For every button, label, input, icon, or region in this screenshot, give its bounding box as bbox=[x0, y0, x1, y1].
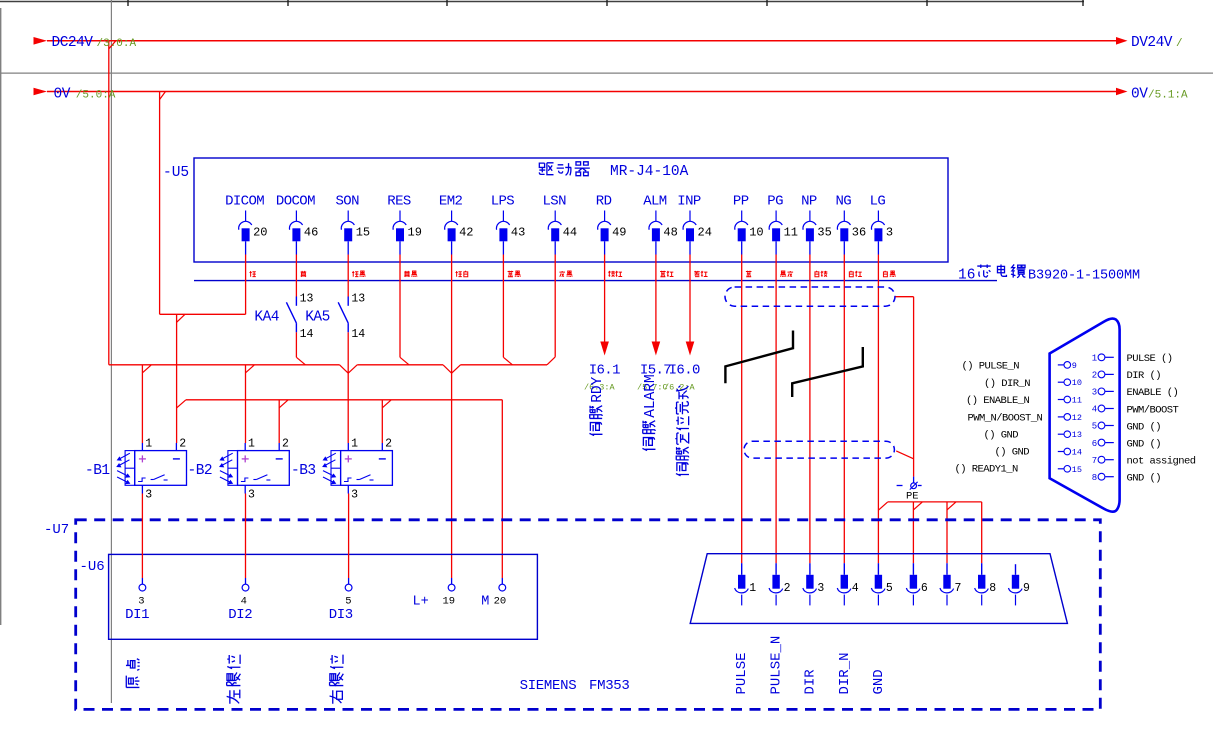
driver U5 box MR-J4-10A bbox=[194, 158, 948, 262]
bus LG/GND bbox=[878, 502, 887, 510]
terminal 3 of U6 bbox=[141, 578, 143, 584]
svg-text:35: 35 bbox=[817, 226, 831, 240]
svg-text:GND (): GND () bbox=[1127, 421, 1162, 433]
svg-text:PWM/BOOST: PWM/BOOST bbox=[1127, 404, 1179, 416]
svg-text:-U5: -U5 bbox=[163, 165, 189, 181]
pin 1 of DB9 bbox=[735, 563, 757, 605]
terminal 20 of U6 bbox=[501, 578, 503, 584]
wire KA5/SON through bus1 to B3 bbox=[347, 332, 349, 443]
svg-text:3: 3 bbox=[138, 596, 144, 608]
page top border bbox=[0, 1, 1084, 3]
wire x=776.1 to DB9 bbox=[775, 255, 777, 564]
svg-text:DIR (): DIR () bbox=[1127, 370, 1162, 382]
wire B2.1 bbox=[245, 365, 247, 443]
wire x=741.7 to DB9 bbox=[741, 255, 743, 564]
svg-text:SON: SON bbox=[335, 194, 359, 210]
svg-text:9: 9 bbox=[1023, 582, 1030, 595]
svg-text:LSN: LSN bbox=[542, 194, 566, 210]
svg-text:4: 4 bbox=[1092, 405, 1097, 415]
svg-text:0V: 0V bbox=[1131, 87, 1148, 103]
svg-text:-U6: -U6 bbox=[80, 559, 105, 575]
net 0V rail bbox=[47, 91, 1116, 93]
page rule line bbox=[0, 72, 1213, 74]
svg-text:1: 1 bbox=[248, 437, 255, 450]
terminal 5 of U6 bbox=[348, 578, 350, 584]
svg-text:MR-J4-10A: MR-J4-10A bbox=[610, 164, 689, 180]
pin NP 35 of U5 bbox=[801, 194, 832, 255]
pin PP 10 of U5 bbox=[733, 194, 764, 255]
label GND bbox=[871, 669, 887, 694]
pin 6 of DB9 bbox=[906, 563, 928, 605]
svg-text:10: 10 bbox=[749, 226, 763, 240]
pin 9 of DB9 bbox=[1009, 564, 1031, 605]
junction 0V branch bbox=[177, 314, 185, 322]
svg-text:2: 2 bbox=[1092, 371, 1097, 381]
pin 9 of DB15 bbox=[1058, 361, 1077, 371]
svg-text:ENABLE (): ENABLE () bbox=[1127, 387, 1179, 399]
svg-text:3: 3 bbox=[351, 488, 358, 501]
svg-text:PP: PP bbox=[733, 194, 749, 210]
wire I6.0 arrow bbox=[689, 255, 691, 343]
junction B2.2 bbox=[279, 400, 288, 408]
page column line bbox=[110, 0, 112, 703]
svg-text:14: 14 bbox=[1072, 448, 1082, 458]
cable shield upper bbox=[725, 287, 895, 306]
svg-text:GND (): GND () bbox=[1127, 438, 1162, 450]
module U6 box bbox=[109, 554, 538, 639]
label 右限位 bbox=[330, 655, 344, 704]
svg-text:7: 7 bbox=[1092, 456, 1097, 466]
junction EM2 V bbox=[443, 365, 452, 373]
pin SON 15 of U5 bbox=[335, 194, 370, 255]
svg-text:/5.0:A: /5.0:A bbox=[76, 90, 116, 102]
wire DICOM to 0V bbox=[245, 255, 247, 315]
svg-text:0V: 0V bbox=[54, 87, 71, 103]
svg-text:14: 14 bbox=[300, 328, 314, 341]
pin ALM 48 of U5 bbox=[643, 194, 678, 255]
svg-text:20: 20 bbox=[494, 596, 507, 608]
svg-text:LPS: LPS bbox=[491, 194, 515, 210]
svg-text:19: 19 bbox=[443, 596, 456, 608]
svg-text:DC24V: DC24V bbox=[52, 35, 94, 51]
svg-text:16: 16 bbox=[958, 268, 975, 284]
wire I5.7 arrow bbox=[655, 255, 657, 343]
svg-text:6: 6 bbox=[1092, 439, 1097, 449]
pin 1 of DB15 bbox=[1092, 354, 1114, 364]
svg-text:NP: NP bbox=[801, 194, 817, 210]
label DIR_N bbox=[837, 652, 853, 694]
module U7 dashed box bbox=[76, 520, 1101, 710]
pin 7 of DB15 bbox=[1092, 456, 1114, 466]
svg-text:() PULSE_N: () PULSE_N bbox=[962, 361, 1020, 373]
svg-text:RDY: RDY bbox=[590, 376, 606, 402]
svg-text:8: 8 bbox=[989, 582, 996, 595]
pin LSN 44 of U5 bbox=[542, 194, 577, 255]
svg-text:3: 3 bbox=[886, 226, 893, 240]
cable shield lower bbox=[744, 441, 894, 458]
wire EM2 through to L+ bbox=[451, 255, 453, 579]
svg-text:5: 5 bbox=[345, 596, 351, 608]
pin LPS 43 of U5 bbox=[491, 194, 526, 255]
svg-text:INP: INP bbox=[677, 194, 701, 210]
pin RES 19 of U5 bbox=[387, 194, 422, 255]
pin 8 of DB15 bbox=[1092, 473, 1114, 483]
wire sensor pin3 x=142.4 bbox=[141, 494, 143, 579]
svg-text:I6.1: I6.1 bbox=[589, 363, 620, 379]
svg-text:DI2: DI2 bbox=[228, 607, 252, 623]
svg-text:PULSE_N: PULSE_N bbox=[769, 636, 785, 695]
svg-text:SIEMENS: SIEMENS bbox=[520, 678, 577, 694]
svg-text:43: 43 bbox=[511, 226, 525, 240]
svg-text:15: 15 bbox=[356, 226, 370, 240]
svg-text:PWM_N/BOOST_N: PWM_N/BOOST_N bbox=[968, 413, 1043, 425]
svg-text:9: 9 bbox=[1072, 361, 1077, 371]
wire LPS to bus1 bbox=[502, 255, 504, 358]
svg-text:13: 13 bbox=[300, 292, 314, 305]
pin 13 of DB15 bbox=[1058, 430, 1082, 440]
junction SON V bbox=[340, 365, 349, 373]
pin EM2 42 of U5 bbox=[439, 194, 474, 255]
svg-text:FM353: FM353 bbox=[589, 678, 630, 694]
pin PG 11 of U5 bbox=[767, 194, 798, 255]
svg-text:3: 3 bbox=[145, 488, 152, 501]
svg-text:I6.0: I6.0 bbox=[669, 363, 700, 379]
wire sensor pin3 x=348.6 bbox=[348, 494, 350, 579]
svg-text:() GND: () GND bbox=[984, 430, 1019, 442]
svg-text:42: 42 bbox=[459, 226, 473, 240]
svg-text:7: 7 bbox=[955, 582, 962, 595]
wire sensor pin3 x=245.5 bbox=[245, 494, 247, 579]
svg-text:/: / bbox=[1176, 38, 1183, 50]
svg-text:ALM: ALM bbox=[643, 194, 667, 210]
bus1 +24V distribution bbox=[109, 364, 340, 366]
label 左限位 bbox=[227, 655, 241, 704]
svg-text:48: 48 bbox=[663, 226, 677, 240]
svg-text:12: 12 bbox=[1072, 413, 1082, 423]
svg-text:DICOM: DICOM bbox=[225, 194, 264, 210]
wire DC24V drop to bus1 bbox=[108, 41, 110, 365]
twisted pair mark A bbox=[725, 331, 793, 384]
label DIR bbox=[803, 669, 819, 695]
svg-text:/3.0:A: /3.0:A bbox=[97, 38, 137, 50]
svg-text:11: 11 bbox=[784, 226, 798, 240]
wire I6.1 arrow bbox=[604, 255, 606, 343]
svg-text:() READY1_N: () READY1_N bbox=[955, 464, 1019, 476]
svg-text:GND: GND bbox=[871, 669, 887, 694]
page left border bbox=[0, 8, 2, 625]
pin 14 of DB15 bbox=[1058, 448, 1082, 458]
svg-text:DI3: DI3 bbox=[329, 607, 353, 623]
pin NG 36 of U5 bbox=[835, 194, 866, 255]
svg-text:2: 2 bbox=[385, 437, 392, 450]
pin INP 24 of U5 bbox=[677, 194, 712, 255]
svg-text:20: 20 bbox=[253, 226, 267, 240]
svg-text:1: 1 bbox=[749, 582, 756, 595]
wire 0V drop bbox=[159, 92, 161, 315]
svg-text:-B3: -B3 bbox=[291, 463, 316, 479]
pin 5 of DB9 bbox=[871, 563, 893, 605]
pin 15 of DB15 bbox=[1058, 465, 1082, 475]
svg-text:19: 19 bbox=[408, 226, 422, 240]
terminal 19 of U6 bbox=[451, 578, 453, 584]
terminal PE bbox=[913, 477, 915, 483]
wire B1.1 bbox=[141, 365, 143, 443]
svg-text:15: 15 bbox=[1072, 465, 1082, 475]
svg-text:DOCOM: DOCOM bbox=[276, 194, 315, 210]
label 伺服ALARM bbox=[642, 374, 659, 450]
pin 2 of DB9 bbox=[769, 563, 791, 605]
svg-text:2: 2 bbox=[179, 437, 186, 450]
svg-text:KA4: KA4 bbox=[254, 310, 279, 326]
pin 3 of DB15 bbox=[1092, 388, 1114, 398]
pin 3 of DB9 bbox=[803, 563, 825, 605]
wire x=809.9 to DB9 bbox=[809, 255, 811, 564]
pin 4 of DB9 bbox=[837, 563, 859, 605]
svg-text:() ENABLE_N: () ENABLE_N bbox=[966, 395, 1030, 407]
svg-text:DIR_N: DIR_N bbox=[837, 652, 853, 694]
svg-text:() DIR_N: () DIR_N bbox=[984, 378, 1030, 390]
label PULSE bbox=[734, 652, 750, 694]
svg-text:NG: NG bbox=[835, 194, 851, 210]
twisted pair mark B bbox=[792, 347, 863, 397]
sensor -B2 bbox=[188, 437, 290, 501]
pin DICOM 20 of U5 bbox=[225, 194, 267, 255]
svg-text:GND (): GND () bbox=[1127, 473, 1162, 485]
svg-text:() GND: () GND bbox=[995, 447, 1030, 459]
svg-text:LG: LG bbox=[870, 194, 886, 210]
sensor -B1 bbox=[85, 437, 187, 501]
svg-text:EM2: EM2 bbox=[439, 194, 463, 210]
label PULSE_N bbox=[769, 636, 785, 695]
svg-text:13: 13 bbox=[1072, 430, 1082, 440]
connector DB15 shell bbox=[1050, 319, 1120, 512]
svg-text:-U7: -U7 bbox=[44, 522, 69, 538]
junction B2.1 bbox=[246, 365, 255, 373]
cable line 16-core bbox=[194, 280, 997, 282]
wire lower shield to PE drop bbox=[896, 451, 913, 459]
svg-text:3: 3 bbox=[248, 488, 255, 501]
svg-text:1: 1 bbox=[145, 437, 152, 450]
wire LSN to bus1 end bbox=[554, 255, 556, 357]
svg-text:B3920-1-1500MM: B3920-1-1500MM bbox=[1028, 269, 1140, 284]
svg-text:4: 4 bbox=[852, 582, 859, 595]
svg-text:44: 44 bbox=[563, 226, 577, 240]
label 伺服RDY bbox=[589, 376, 606, 435]
svg-text:PG: PG bbox=[767, 194, 783, 210]
pin 5 of DB15 bbox=[1092, 422, 1114, 432]
title 驱动器 bbox=[539, 163, 553, 175]
sensor -B3 bbox=[291, 437, 392, 501]
pin LG 3 of U5 bbox=[870, 194, 894, 255]
wire colour labels bbox=[250, 271, 256, 277]
svg-text:13: 13 bbox=[351, 292, 365, 305]
wire bus2 to M terminal bbox=[501, 400, 503, 578]
svg-text:10: 10 bbox=[1072, 378, 1082, 388]
svg-text:RES: RES bbox=[387, 194, 411, 210]
wire KA4 to bus1 bbox=[295, 332, 297, 357]
svg-text:14: 14 bbox=[351, 328, 365, 341]
contact KA4 bbox=[295, 255, 297, 297]
svg-text:DI1: DI1 bbox=[125, 607, 149, 623]
pin 11 of DB15 bbox=[1058, 396, 1082, 406]
svg-text:PULSE: PULSE bbox=[734, 652, 750, 694]
svg-text:1: 1 bbox=[351, 437, 358, 450]
wire RES to bus1 bbox=[399, 255, 401, 358]
svg-text:24: 24 bbox=[698, 226, 712, 240]
svg-text:5: 5 bbox=[1092, 422, 1097, 432]
svg-text:DV24V: DV24V bbox=[1131, 35, 1173, 51]
svg-text:2: 2 bbox=[784, 582, 791, 595]
svg-text:not assigned: not assigned bbox=[1127, 456, 1196, 468]
wire x=844.3 to DB9 bbox=[843, 255, 845, 564]
svg-text:KA5: KA5 bbox=[305, 310, 330, 326]
pin 12 of DB15 bbox=[1058, 413, 1082, 423]
svg-text:8: 8 bbox=[1092, 473, 1097, 483]
pin 6 of DB15 bbox=[1092, 439, 1114, 449]
svg-text:L+: L+ bbox=[413, 595, 429, 610]
contact KA5 bbox=[347, 255, 349, 297]
pin 2 of DB15 bbox=[1092, 371, 1114, 381]
pin DOCOM 46 of U5 bbox=[276, 194, 318, 255]
wire B1 pin2 riser bbox=[176, 314, 178, 443]
pin 10 of DB15 bbox=[1058, 378, 1082, 388]
svg-text:4: 4 bbox=[241, 596, 247, 608]
pin 8 of DB9 bbox=[975, 563, 997, 605]
svg-text:-B2: -B2 bbox=[188, 463, 213, 479]
pin 4 of DB15 bbox=[1092, 405, 1114, 415]
terminal 4 of U6 bbox=[245, 578, 247, 584]
pin 7 of DB9 bbox=[940, 563, 961, 605]
svg-text:3: 3 bbox=[817, 582, 824, 595]
svg-text:M: M bbox=[481, 595, 489, 610]
svg-text:RD: RD bbox=[596, 194, 612, 210]
label 伺服定位完成 bbox=[675, 386, 689, 476]
svg-text:/5.1:A: /5.1:A bbox=[1148, 90, 1188, 102]
svg-text:PULSE (): PULSE () bbox=[1127, 353, 1173, 365]
wire x=878.4 to DB9 bbox=[877, 255, 879, 564]
svg-text:1: 1 bbox=[1092, 354, 1097, 364]
svg-text:3: 3 bbox=[1092, 388, 1097, 398]
label 原点 bbox=[126, 659, 140, 688]
svg-text:46: 46 bbox=[304, 226, 318, 240]
svg-text:PE: PE bbox=[906, 491, 919, 503]
svg-text:DIR: DIR bbox=[803, 669, 819, 695]
svg-text:2: 2 bbox=[282, 437, 289, 450]
pin RD 49 of U5 bbox=[596, 194, 627, 255]
junction B3.2 bbox=[382, 400, 391, 408]
svg-text:49: 49 bbox=[612, 226, 626, 240]
svg-text:36: 36 bbox=[852, 226, 866, 240]
net DC24V rail bbox=[47, 40, 1116, 42]
svg-text:-B1: -B1 bbox=[85, 463, 110, 479]
svg-text:11: 11 bbox=[1072, 396, 1082, 406]
wire shield to PE bbox=[896, 296, 914, 298]
svg-text:6: 6 bbox=[921, 582, 928, 595]
svg-text:ALARM: ALARM bbox=[643, 374, 659, 418]
bus2 0V distribution bbox=[177, 400, 186, 408]
svg-text:5: 5 bbox=[886, 582, 893, 595]
connector DB9 trapezoid bbox=[690, 554, 1067, 624]
junction B1.1 bbox=[142, 365, 151, 373]
